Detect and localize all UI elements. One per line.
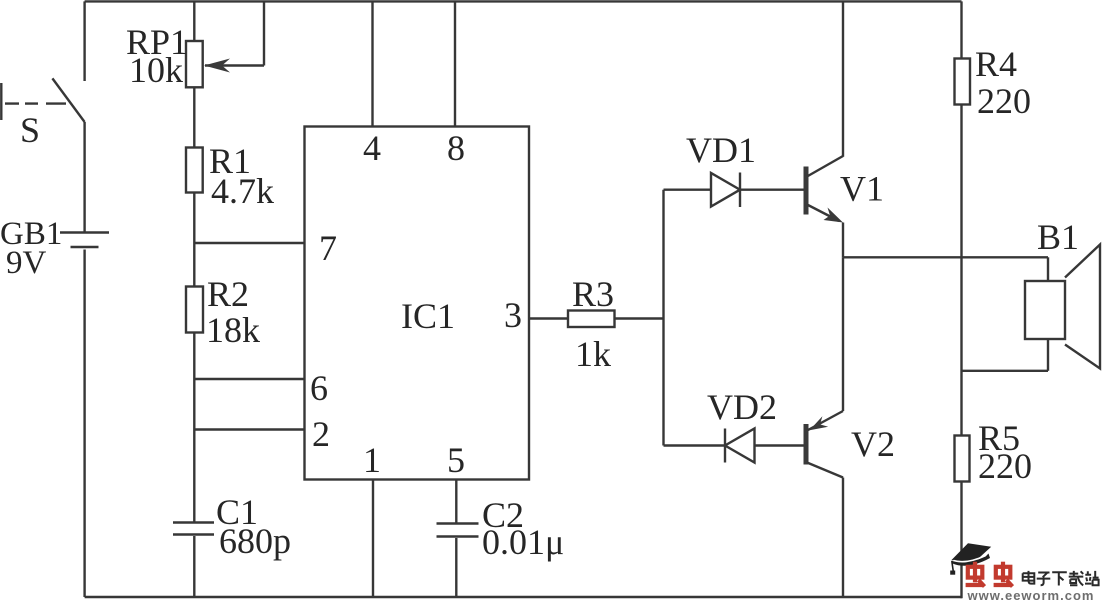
svg-text:8: 8 <box>447 128 465 168</box>
svg-text:www.eeworm.com: www.eeworm.com <box>967 588 1095 601</box>
wire branch vertical <box>662 190 664 446</box>
wire C2 to ground rail <box>455 538 457 597</box>
svg-text:10k: 10k <box>129 50 183 90</box>
capacitor C1 <box>173 521 214 523</box>
speaker B1 <box>1025 281 1065 339</box>
wire bottom ground rail <box>85 596 962 598</box>
potentiometer RP1 wiper arrow <box>205 64 264 66</box>
wire pin 4 to rail <box>371 1 373 126</box>
wire top supply rail <box>85 0 962 2</box>
wire pin 8 to rail <box>454 1 456 126</box>
switch S fixed terminal <box>0 83 2 120</box>
wire node to VD1 <box>664 188 712 190</box>
wire left column upper stub <box>83 1 85 81</box>
svg-text:680p: 680p <box>219 521 291 561</box>
svg-text:3: 3 <box>504 295 522 335</box>
svg-text:5: 5 <box>447 440 465 480</box>
svg-text:4: 4 <box>363 128 381 168</box>
wire R4 to R5 <box>960 105 962 436</box>
wire V2 collector to ground <box>842 478 844 598</box>
switch S dashed link <box>5 102 66 104</box>
wire emitter node to speaker <box>843 256 1048 258</box>
svg-text:1k: 1k <box>575 334 611 374</box>
svg-text:VD2: VD2 <box>707 387 777 427</box>
svg-text:4.7k: 4.7k <box>211 171 274 211</box>
wire VD1 to V1 base <box>740 188 804 190</box>
diode VD2 <box>724 429 726 463</box>
wire node to pin 7 <box>194 242 304 244</box>
wire V1 emitter down <box>842 223 844 258</box>
svg-text:V2: V2 <box>851 424 895 464</box>
svg-text:220: 220 <box>978 446 1032 486</box>
svg-text:R2: R2 <box>207 274 249 314</box>
svg-text:R4: R4 <box>975 44 1017 84</box>
wire pin 1 to ground <box>372 480 374 598</box>
wire node to VD2 <box>664 444 726 446</box>
battery GB1 negative plate <box>71 246 99 248</box>
svg-text:220: 220 <box>977 81 1031 121</box>
wire pin 5 to C2 <box>455 480 457 524</box>
svg-text:2: 2 <box>312 414 330 454</box>
svg-text:B1: B1 <box>1037 217 1079 257</box>
wire R2 to C1 <box>193 333 195 523</box>
wire speaker return <box>962 370 1049 372</box>
wire pin 3 to R3 <box>529 317 568 319</box>
wire switch to battery <box>83 122 85 232</box>
resistor R4 <box>955 59 971 105</box>
wire node to pin 2 <box>194 428 304 430</box>
svg-text:7: 7 <box>319 228 337 268</box>
potentiometer RP1 body <box>186 41 203 87</box>
resistor R1 <box>186 148 203 193</box>
switch S blade <box>52 78 84 122</box>
svg-text:6: 6 <box>310 368 328 408</box>
op-amp IC1 box <box>305 127 530 480</box>
resistor R5 <box>955 436 970 482</box>
resistor R3 <box>568 311 615 328</box>
wire RP1 top stub <box>193 1 195 41</box>
wire battery to ground rail <box>83 250 85 598</box>
svg-text:VD1: VD1 <box>686 130 756 170</box>
svg-text:18k: 18k <box>206 310 260 350</box>
wire right rail top <box>960 1 962 58</box>
battery GB1 positive plate <box>60 231 109 233</box>
wire VD2 to V2 base <box>755 444 804 446</box>
wire C1 to ground rail <box>193 536 195 597</box>
watermark text chong chong <box>966 562 1013 587</box>
svg-text:S: S <box>20 110 40 150</box>
diode VD1 <box>711 173 740 207</box>
svg-text:R3: R3 <box>572 274 614 314</box>
svg-text:0.01μ: 0.01μ <box>482 522 564 562</box>
svg-text:IC1: IC1 <box>401 296 455 336</box>
wire wiper to top rail <box>263 1 265 65</box>
wire emitter node to V2 <box>842 257 844 411</box>
svg-text:9V: 9V <box>6 245 47 281</box>
wire R3 to branch node <box>615 317 664 319</box>
resistor R2 <box>186 287 203 333</box>
svg-text:1: 1 <box>363 440 381 480</box>
wire RP1 to R1 <box>193 87 195 147</box>
wire node to pin 6 <box>194 378 304 380</box>
watermark text dian zi xia zai zhan <box>1023 571 1099 586</box>
wire V1 collector to rail <box>842 1 844 156</box>
wire R5 to ground <box>960 482 962 599</box>
svg-text:V1: V1 <box>840 169 884 209</box>
wire R1 to R2 <box>193 193 195 287</box>
transistor V1 <box>804 167 809 215</box>
watermark cap icon <box>950 543 991 575</box>
transistor V2 <box>804 424 809 465</box>
capacitor C2 <box>437 522 479 524</box>
